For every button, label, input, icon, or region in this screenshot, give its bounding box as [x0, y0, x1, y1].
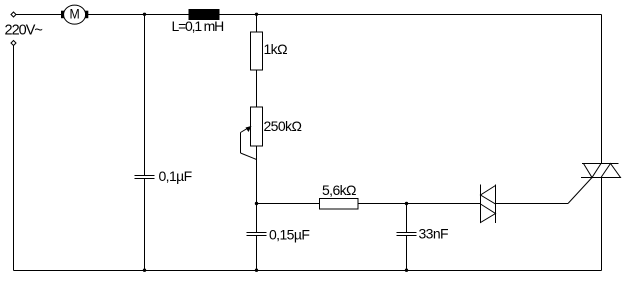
wire C3 to bottom rail [406, 236, 408, 271]
potentiometer P1 wiper arrow [241, 126, 257, 160]
node top junction to R1 [255, 13, 258, 16]
wire C2 to bottom rail [256, 236, 258, 271]
resistor R1 body [251, 32, 263, 70]
triac T1 top bar [582, 163, 619, 165]
diac D1 left bar [480, 185, 482, 224]
motor M1 body [64, 5, 86, 24]
node mid junction C3 [405, 202, 408, 205]
triac T1 left triangle [584, 164, 602, 178]
terminal T2 [11, 41, 16, 46]
svg-text:M: M [69, 6, 79, 22]
svg-text:0,1µF: 0,1µF [159, 168, 192, 184]
wire P1 to mid node [256, 146, 258, 204]
node bottom junction C1 [143, 269, 146, 272]
resistor R2 body [320, 199, 359, 210]
node mid junction left [255, 202, 258, 205]
wire mid node to R2 [257, 203, 320, 205]
motor M1 brush right [86, 11, 88, 18]
capacitor C3 plate top [397, 232, 417, 234]
diac D1 bottom triangle [481, 204, 496, 223]
diac D1 top triangle [481, 186, 496, 205]
wire top rail to R1 [256, 15, 258, 33]
svg-text:220V~: 220V~ [5, 23, 43, 39]
node top junction to C1 [143, 13, 146, 16]
svg-text:5,6kΩ: 5,6kΩ [322, 182, 356, 198]
capacitor C1 plate bottom [135, 178, 155, 180]
node bottom junction C3 [405, 269, 408, 272]
wire top rail down to C1 [144, 15, 146, 176]
terminal T1 [11, 12, 16, 17]
triac T1 right triangle [601, 164, 621, 178]
potentiometer P1 body [251, 107, 263, 146]
svg-text:33nF: 33nF [419, 225, 449, 241]
triac T1 bottom bar [581, 177, 621, 179]
wire top rail down to triac [601, 15, 603, 164]
wire C2 branch down [256, 204, 258, 233]
wire R1 to P1 [256, 70, 258, 107]
capacitor C1 plate top [135, 175, 155, 177]
svg-text:1kΩ: 1kΩ [264, 41, 288, 57]
wire triac down to bottom rail [601, 178, 603, 271]
wire motor to inductor [88, 14, 189, 16]
wire bottom rail [14, 270, 602, 272]
wire R2 to diac [358, 203, 481, 205]
capacitor C2 plate top [247, 232, 267, 234]
wire C3 branch down [406, 204, 408, 233]
inductor L1 body [189, 10, 219, 20]
wire inductor to top-right corner [219, 14, 602, 16]
svg-text:L=0,1 mH: L=0,1 mH [172, 18, 224, 34]
svg-text:0,15µF: 0,15µF [269, 226, 309, 242]
wire diac to gate bend [496, 203, 569, 205]
diac D1 right bar [495, 185, 497, 224]
wire gate diagonal to triac [568, 178, 592, 204]
wire C1 to bottom rail [144, 179, 146, 271]
svg-text:250kΩ: 250kΩ [264, 118, 302, 134]
wire T2 down left side [13, 46, 15, 271]
motor M1 brush left [62, 11, 65, 18]
capacitor C3 plate bottom [397, 235, 417, 237]
wire T1 to motor [16, 14, 62, 16]
node bottom junction C2 [255, 269, 258, 272]
capacitor C2 plate bottom [247, 235, 267, 237]
